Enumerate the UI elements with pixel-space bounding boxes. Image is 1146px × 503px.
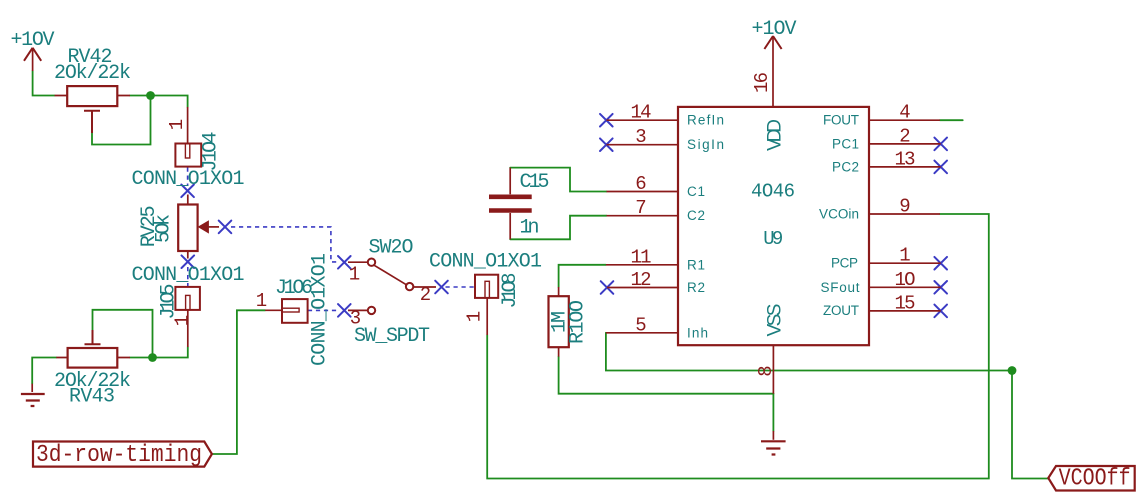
svg-text:VCOin: VCOin bbox=[819, 207, 859, 222]
svg-text:PCP: PCP bbox=[831, 256, 858, 271]
svg-text:VSS: VSS bbox=[765, 304, 786, 337]
svg-text:1: 1 bbox=[166, 119, 188, 130]
svg-text:14: 14 bbox=[631, 102, 652, 124]
svg-text:VCOOff: VCOOff bbox=[1059, 466, 1131, 493]
svg-text:5: 5 bbox=[635, 314, 646, 336]
svg-text:2Ok/22k: 2Ok/22k bbox=[54, 62, 131, 85]
svg-text:R1OO: R1OO bbox=[567, 300, 590, 344]
svg-text:1: 1 bbox=[256, 290, 267, 312]
svg-text:SW_SPDT: SW_SPDT bbox=[354, 325, 430, 348]
svg-text:8: 8 bbox=[755, 365, 777, 376]
svg-text:5Ok: 5Ok bbox=[153, 214, 176, 243]
svg-text:SigIn: SigIn bbox=[687, 137, 724, 152]
svg-text:PC2: PC2 bbox=[832, 159, 859, 174]
svg-text:+1OV: +1OV bbox=[752, 18, 797, 41]
svg-text:J1O5: J1O5 bbox=[158, 284, 181, 320]
svg-text:J1O6: J1O6 bbox=[275, 277, 313, 300]
svg-text:3d-row-timing: 3d-row-timing bbox=[36, 442, 202, 469]
svg-text:FOUT: FOUT bbox=[823, 113, 859, 128]
svg-text:7: 7 bbox=[635, 197, 646, 219]
svg-text:C2: C2 bbox=[687, 208, 705, 223]
svg-text:CONN_O1XO1: CONN_O1XO1 bbox=[429, 251, 542, 274]
svg-text:1: 1 bbox=[464, 311, 486, 322]
svg-text:16: 16 bbox=[751, 72, 773, 93]
svg-text:11: 11 bbox=[631, 246, 652, 268]
svg-text:J1O4: J1O4 bbox=[200, 132, 223, 172]
svg-text:1: 1 bbox=[172, 315, 194, 326]
svg-text:2: 2 bbox=[420, 284, 431, 306]
svg-text:1O: 1O bbox=[895, 269, 916, 291]
svg-text:CONN_O1XO1: CONN_O1XO1 bbox=[309, 253, 332, 366]
svg-text:1: 1 bbox=[899, 245, 910, 267]
svg-text:12: 12 bbox=[631, 269, 652, 291]
svg-text:ZOUT: ZOUT bbox=[823, 303, 859, 318]
svg-text:C1: C1 bbox=[687, 184, 705, 199]
svg-text:9: 9 bbox=[899, 196, 910, 218]
svg-text:2: 2 bbox=[899, 125, 910, 147]
svg-text:VDD: VDD bbox=[765, 119, 786, 151]
svg-text:RV43: RV43 bbox=[69, 386, 115, 409]
svg-text:13: 13 bbox=[895, 148, 916, 170]
svg-text:3: 3 bbox=[635, 126, 646, 148]
svg-text:+1OV: +1OV bbox=[11, 29, 55, 52]
svg-text:CONN_O1XO1: CONN_O1XO1 bbox=[132, 168, 245, 191]
svg-text:U9: U9 bbox=[763, 228, 783, 250]
svg-text:15: 15 bbox=[895, 292, 916, 314]
svg-text:R1: R1 bbox=[687, 257, 705, 272]
svg-text:Inh: Inh bbox=[687, 325, 708, 340]
svg-text:R2: R2 bbox=[687, 280, 705, 295]
svg-text:1: 1 bbox=[349, 264, 360, 286]
svg-text:1n: 1n bbox=[520, 217, 540, 240]
svg-text:CONN_O1XO1: CONN_O1XO1 bbox=[132, 264, 245, 287]
svg-text:C15: C15 bbox=[520, 171, 550, 194]
svg-text:SW2O: SW2O bbox=[369, 237, 414, 260]
svg-text:SFout: SFout bbox=[821, 280, 860, 295]
svg-text:6: 6 bbox=[635, 173, 646, 195]
svg-text:4O46: 4O46 bbox=[751, 181, 795, 203]
svg-text:3: 3 bbox=[350, 308, 361, 330]
svg-text:PC1: PC1 bbox=[832, 136, 859, 151]
svg-text:4: 4 bbox=[899, 102, 910, 124]
svg-text:J1O8: J1O8 bbox=[499, 273, 522, 309]
